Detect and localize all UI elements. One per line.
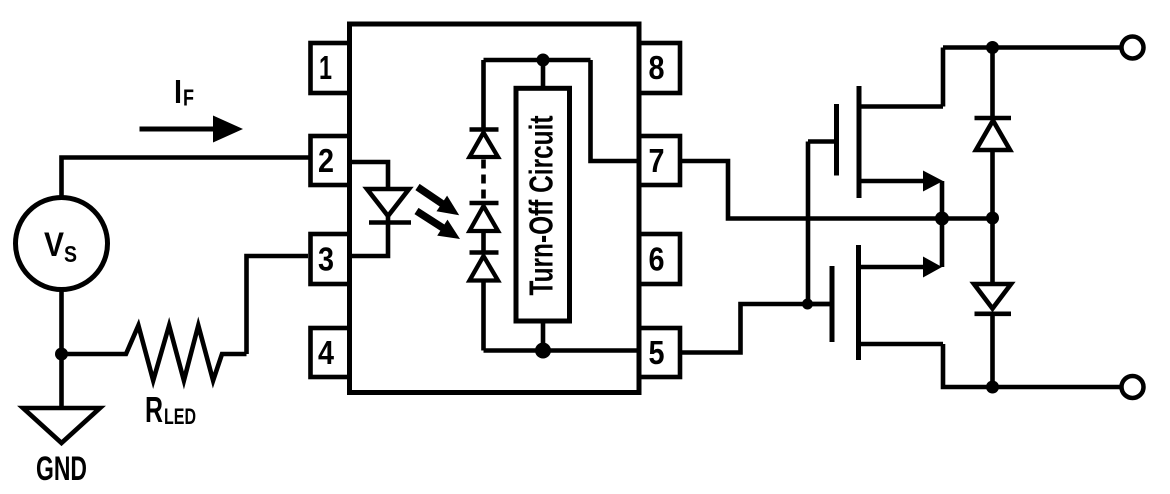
node top rail junction — [537, 54, 550, 67]
terminal output top — [1122, 37, 1144, 59]
svg-text:I: I — [174, 73, 182, 110]
LED D1 — [367, 189, 411, 223]
svg-text:2: 2 — [318, 142, 334, 179]
wire output bottom rail — [993, 385, 1122, 390]
svg-text:Turn-Off Circuit: Turn-Off Circuit — [523, 115, 560, 295]
wire RLED to pin 3 — [247, 256, 309, 354]
node top rail diode junction — [986, 41, 999, 54]
wire top rail — [484, 58, 591, 63]
pin 1 — [311, 43, 350, 93]
turn-off circuit U2 — [516, 88, 570, 321]
wire LED cathode to pin 3 — [350, 223, 389, 257]
terminal output bottom — [1122, 376, 1144, 398]
svg-text:1: 1 — [319, 49, 332, 86]
wire turn-off top — [541, 60, 546, 88]
photodiode D4 — [470, 253, 499, 281]
svg-text:7: 7 — [649, 142, 665, 179]
voltage source VS — [16, 198, 108, 290]
wire bottom rail to pin 5 — [484, 348, 640, 353]
svg-text:LED: LED — [164, 404, 196, 429]
wire Q1 drain to top rail — [941, 48, 946, 107]
transistor Q1 — [808, 86, 943, 198]
LED light arrow 2 — [417, 211, 461, 239]
IC body U1 — [350, 24, 640, 393]
wire pin 2 to LED anode — [350, 162, 389, 189]
wire gate tie — [806, 142, 811, 305]
wire D6 to bottom rail — [990, 314, 995, 387]
wire VS bottom to ground — [59, 290, 64, 409]
svg-text:R: R — [145, 389, 163, 430]
pin 6 — [639, 234, 680, 284]
label IF current — [174, 73, 194, 111]
diode D5 — [975, 118, 1012, 150]
pin 7 — [639, 136, 680, 185]
svg-text:F: F — [183, 85, 194, 111]
wire Q1 source to rail — [940, 181, 945, 219]
wire VS top to pin 2 — [62, 158, 310, 198]
node junction VS/RLED/GND — [55, 348, 68, 361]
svg-text:5: 5 — [649, 334, 665, 371]
transistor Q2 — [808, 245, 944, 360]
pin 3 — [311, 234, 350, 284]
pin 4 — [311, 328, 350, 377]
photodiode D2 — [470, 130, 499, 158]
LED light arrow 1 — [418, 187, 460, 215]
wire Q2 source to rail — [940, 219, 945, 268]
svg-text:8: 8 — [649, 49, 665, 86]
wire Q2 drain to bottom rail — [943, 344, 993, 387]
node bottom rail diode junction — [986, 381, 999, 394]
wire stack bottom — [481, 281, 486, 351]
wire turn-off bottom — [541, 321, 546, 351]
wire top rail to diode D5 — [990, 48, 995, 119]
node diode column middle — [986, 212, 999, 225]
svg-text:S: S — [64, 241, 77, 267]
wire photodiode stack top — [481, 60, 486, 130]
svg-text:V: V — [44, 226, 64, 264]
wire D5 to node — [990, 150, 995, 284]
node bottom rail junction — [535, 343, 551, 359]
wire pin 5 to gates — [680, 304, 832, 353]
diode D6 — [974, 284, 1011, 314]
resistor RLED — [62, 326, 247, 431]
pin 8 — [639, 43, 680, 93]
svg-text:3: 3 — [318, 241, 334, 278]
wire D3 to D4 — [481, 231, 486, 253]
svg-text:4: 4 — [318, 334, 335, 371]
ground — [23, 408, 100, 488]
node common source — [935, 212, 949, 226]
svg-text:GND: GND — [36, 450, 87, 488]
pin 2 — [311, 136, 350, 185]
arrow IF — [140, 116, 244, 143]
wire dashed stack — [481, 160, 486, 202]
wire output top rail — [943, 45, 1122, 50]
wire top rail to pin 7 — [591, 60, 640, 161]
node gate junction — [802, 299, 813, 310]
svg-text:6: 6 — [649, 241, 665, 278]
wire pin 7 to common source rail — [680, 161, 993, 219]
photodiode D3 — [470, 203, 499, 231]
pin 5 — [639, 328, 680, 377]
